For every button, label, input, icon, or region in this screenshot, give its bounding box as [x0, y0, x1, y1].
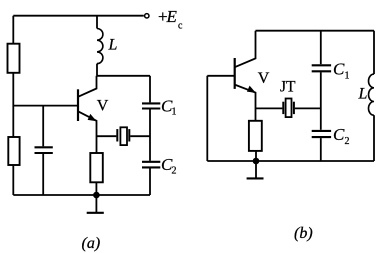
wire: circuit (b) top rail	[256, 30, 375, 32]
svg-text:2: 2	[345, 136, 350, 147]
capacitor C1 (b) plates	[312, 65, 331, 71]
capacitor C2 (b) plates	[312, 131, 331, 137]
wire: base wire of transistor V in (a)	[13, 105, 78, 107]
wire: circuit (a) top rail to supply terminal	[13, 15, 144, 17]
svg-text:JT: JT	[280, 79, 296, 96]
svg-text:E: E	[166, 7, 178, 26]
transistor V (b): emitter lead	[235, 85, 256, 121]
wire: inductor L upper lead	[96, 16, 98, 29]
transistor V (a): base bar	[77, 89, 79, 121]
resistor R2 (lower left bias resistor)	[8, 137, 19, 165]
wire: bypass capacitor lower lead	[42, 154, 44, 195]
resistor R1 (upper left bias resistor)	[8, 44, 20, 73]
wire: inductor L lower lead to collector node	[96, 64, 98, 76]
wire: right rail segment above C1 (a)	[149, 76, 151, 103]
crystal (a): right plate	[128, 129, 130, 141]
ground (a): stub	[95, 195, 97, 213]
wire: middle rail below C2 (b)	[320, 138, 322, 161]
transistor V (a): collector lead	[78, 76, 97, 97]
node: junction dot (b)	[253, 158, 260, 165]
ground (b): stub	[255, 161, 257, 178]
svg-text:V: V	[97, 98, 109, 115]
svg-text:1: 1	[172, 107, 177, 118]
svg-text:(a): (a)	[82, 235, 101, 252]
svg-text:C: C	[333, 125, 345, 144]
wire: right rail segment below C2 (a)	[149, 168, 151, 195]
capacitor: bypass cap plates	[35, 147, 53, 153]
ground (a): bar	[87, 212, 104, 214]
resistor Re (b emitter resistor)	[249, 121, 262, 151]
resistor Re (a emitter resistor)	[90, 153, 103, 182]
node: junction dot (a)	[93, 192, 100, 199]
wire: base wire of transistor V in (b)	[207, 75, 234, 77]
svg-text:2: 2	[172, 165, 177, 176]
svg-text:(b): (b)	[294, 225, 313, 242]
inductor L coil (three loops)	[97, 29, 103, 64]
ground (b): bar	[247, 177, 264, 179]
crystal JT (b): left plate	[282, 102, 284, 114]
crystal JT (b): right plate	[293, 102, 295, 114]
wire: emitter resistor to ground node (b)	[255, 151, 257, 161]
transistor V (b): collector lead	[235, 31, 256, 67]
wire: right rail below inductor L (b)	[373, 115, 375, 161]
svg-text:1: 1	[345, 70, 350, 81]
wire: circuit (a) left rail	[12, 16, 14, 195]
wire: right rail segment between C1 and C2 (a)	[149, 110, 151, 161]
crystal (a): left plate	[116, 129, 118, 141]
wire: circuit (b) left rail	[206, 76, 208, 161]
power terminal +Ec (open circle)	[145, 14, 149, 18]
transistor V (b): base bar	[234, 58, 236, 89]
wire: crystal right lead to middle rail (b)	[295, 107, 321, 109]
wire: emitter node to crystal JT left lead (b)	[256, 107, 283, 109]
svg-text:C: C	[333, 59, 345, 78]
crystal (a): quartz rectangle	[120, 127, 127, 145]
transistor V (b): emitter arrowhead	[247, 86, 256, 93]
capacitor C1 (a) plates	[142, 103, 160, 108]
svg-text:V: V	[258, 70, 270, 87]
svg-text:c: c	[178, 20, 183, 31]
wire: middle rail above C1 (b)	[320, 31, 322, 64]
wire: bypass capacitor upper lead	[42, 106, 44, 147]
wire: middle rail between C1 and C2 (b)	[320, 72, 322, 130]
wire: emitter node to crystal left lead (a)	[97, 135, 117, 137]
wire: right rail above inductor L (b)	[373, 31, 375, 74]
svg-text:L: L	[108, 36, 118, 53]
inductor L coil (b, three loops bulging left)	[368, 74, 374, 115]
wire: circuit (a) bottom rail	[13, 194, 150, 196]
crystal JT (b): quartz rectangle	[286, 99, 292, 118]
wire: collector node to C1 branch (top right of a)	[97, 75, 151, 77]
wire: crystal right lead to right rail (a)	[130, 135, 150, 137]
svg-text:L: L	[358, 85, 368, 102]
wire: circuit (b) bottom rail	[207, 160, 374, 162]
wire: emitter resistor to ground node (a)	[95, 182, 97, 195]
transistor V (a): emitter lead	[78, 111, 97, 153]
capacitor C2 (a) plates	[142, 162, 160, 168]
transistor V (a): emitter arrowhead	[88, 114, 97, 121]
